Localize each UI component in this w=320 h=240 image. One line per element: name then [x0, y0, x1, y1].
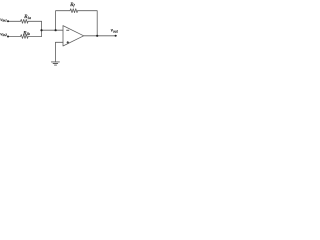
svg-text:vout: vout — [111, 28, 119, 34]
svg-text:R1a: R1a — [23, 14, 31, 20]
svg-text:vin2: vin2 — [0, 33, 7, 38]
svg-text:vin1: vin1 — [0, 18, 7, 23]
svg-text:R1b: R1b — [22, 30, 30, 36]
